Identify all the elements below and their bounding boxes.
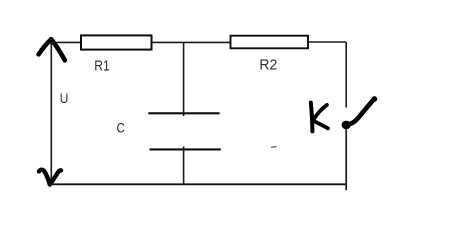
svg-text:C: C [117,121,125,136]
wire: R1 to R2 (through node A) [152,41,231,43]
svg-text:U: U [60,91,69,107]
label C [117,121,125,136]
switch K lever (open blade) [347,96,378,125]
wire: left vertical branch (voltage source U) [50,40,52,184]
svg-text:R2: R2 [259,58,277,74]
label R1 [94,58,110,74]
resistor R1 [81,35,152,49]
svg-text:R1: R1 [94,58,110,74]
wire: source top to R1 [51,41,81,43]
node A: junction to capacitor branch [183,42,185,116]
capacitor C top plate [148,112,219,114]
label U [60,91,69,107]
wire: bottom rail [49,183,347,185]
stray pen mark [272,146,277,149]
switch K pivot contact (dot) [342,121,351,130]
wire: right vertical, bottom segment (switch to bottom rail) [345,129,347,191]
capacitor C bottom plate [150,148,221,150]
arrowhead down (U polarity, bottom of source) [39,170,61,185]
resistor R2 [231,36,309,49]
arrowhead up (U polarity, top of source) [39,39,65,60]
label K (hand drawn) [311,103,328,132]
label R2 [259,58,277,74]
wire: R2 to top-right corner [308,41,346,43]
wire: right vertical, top segment (to switch) [345,42,347,108]
wire: capacitor bottom lead to bottom rail [183,147,185,185]
